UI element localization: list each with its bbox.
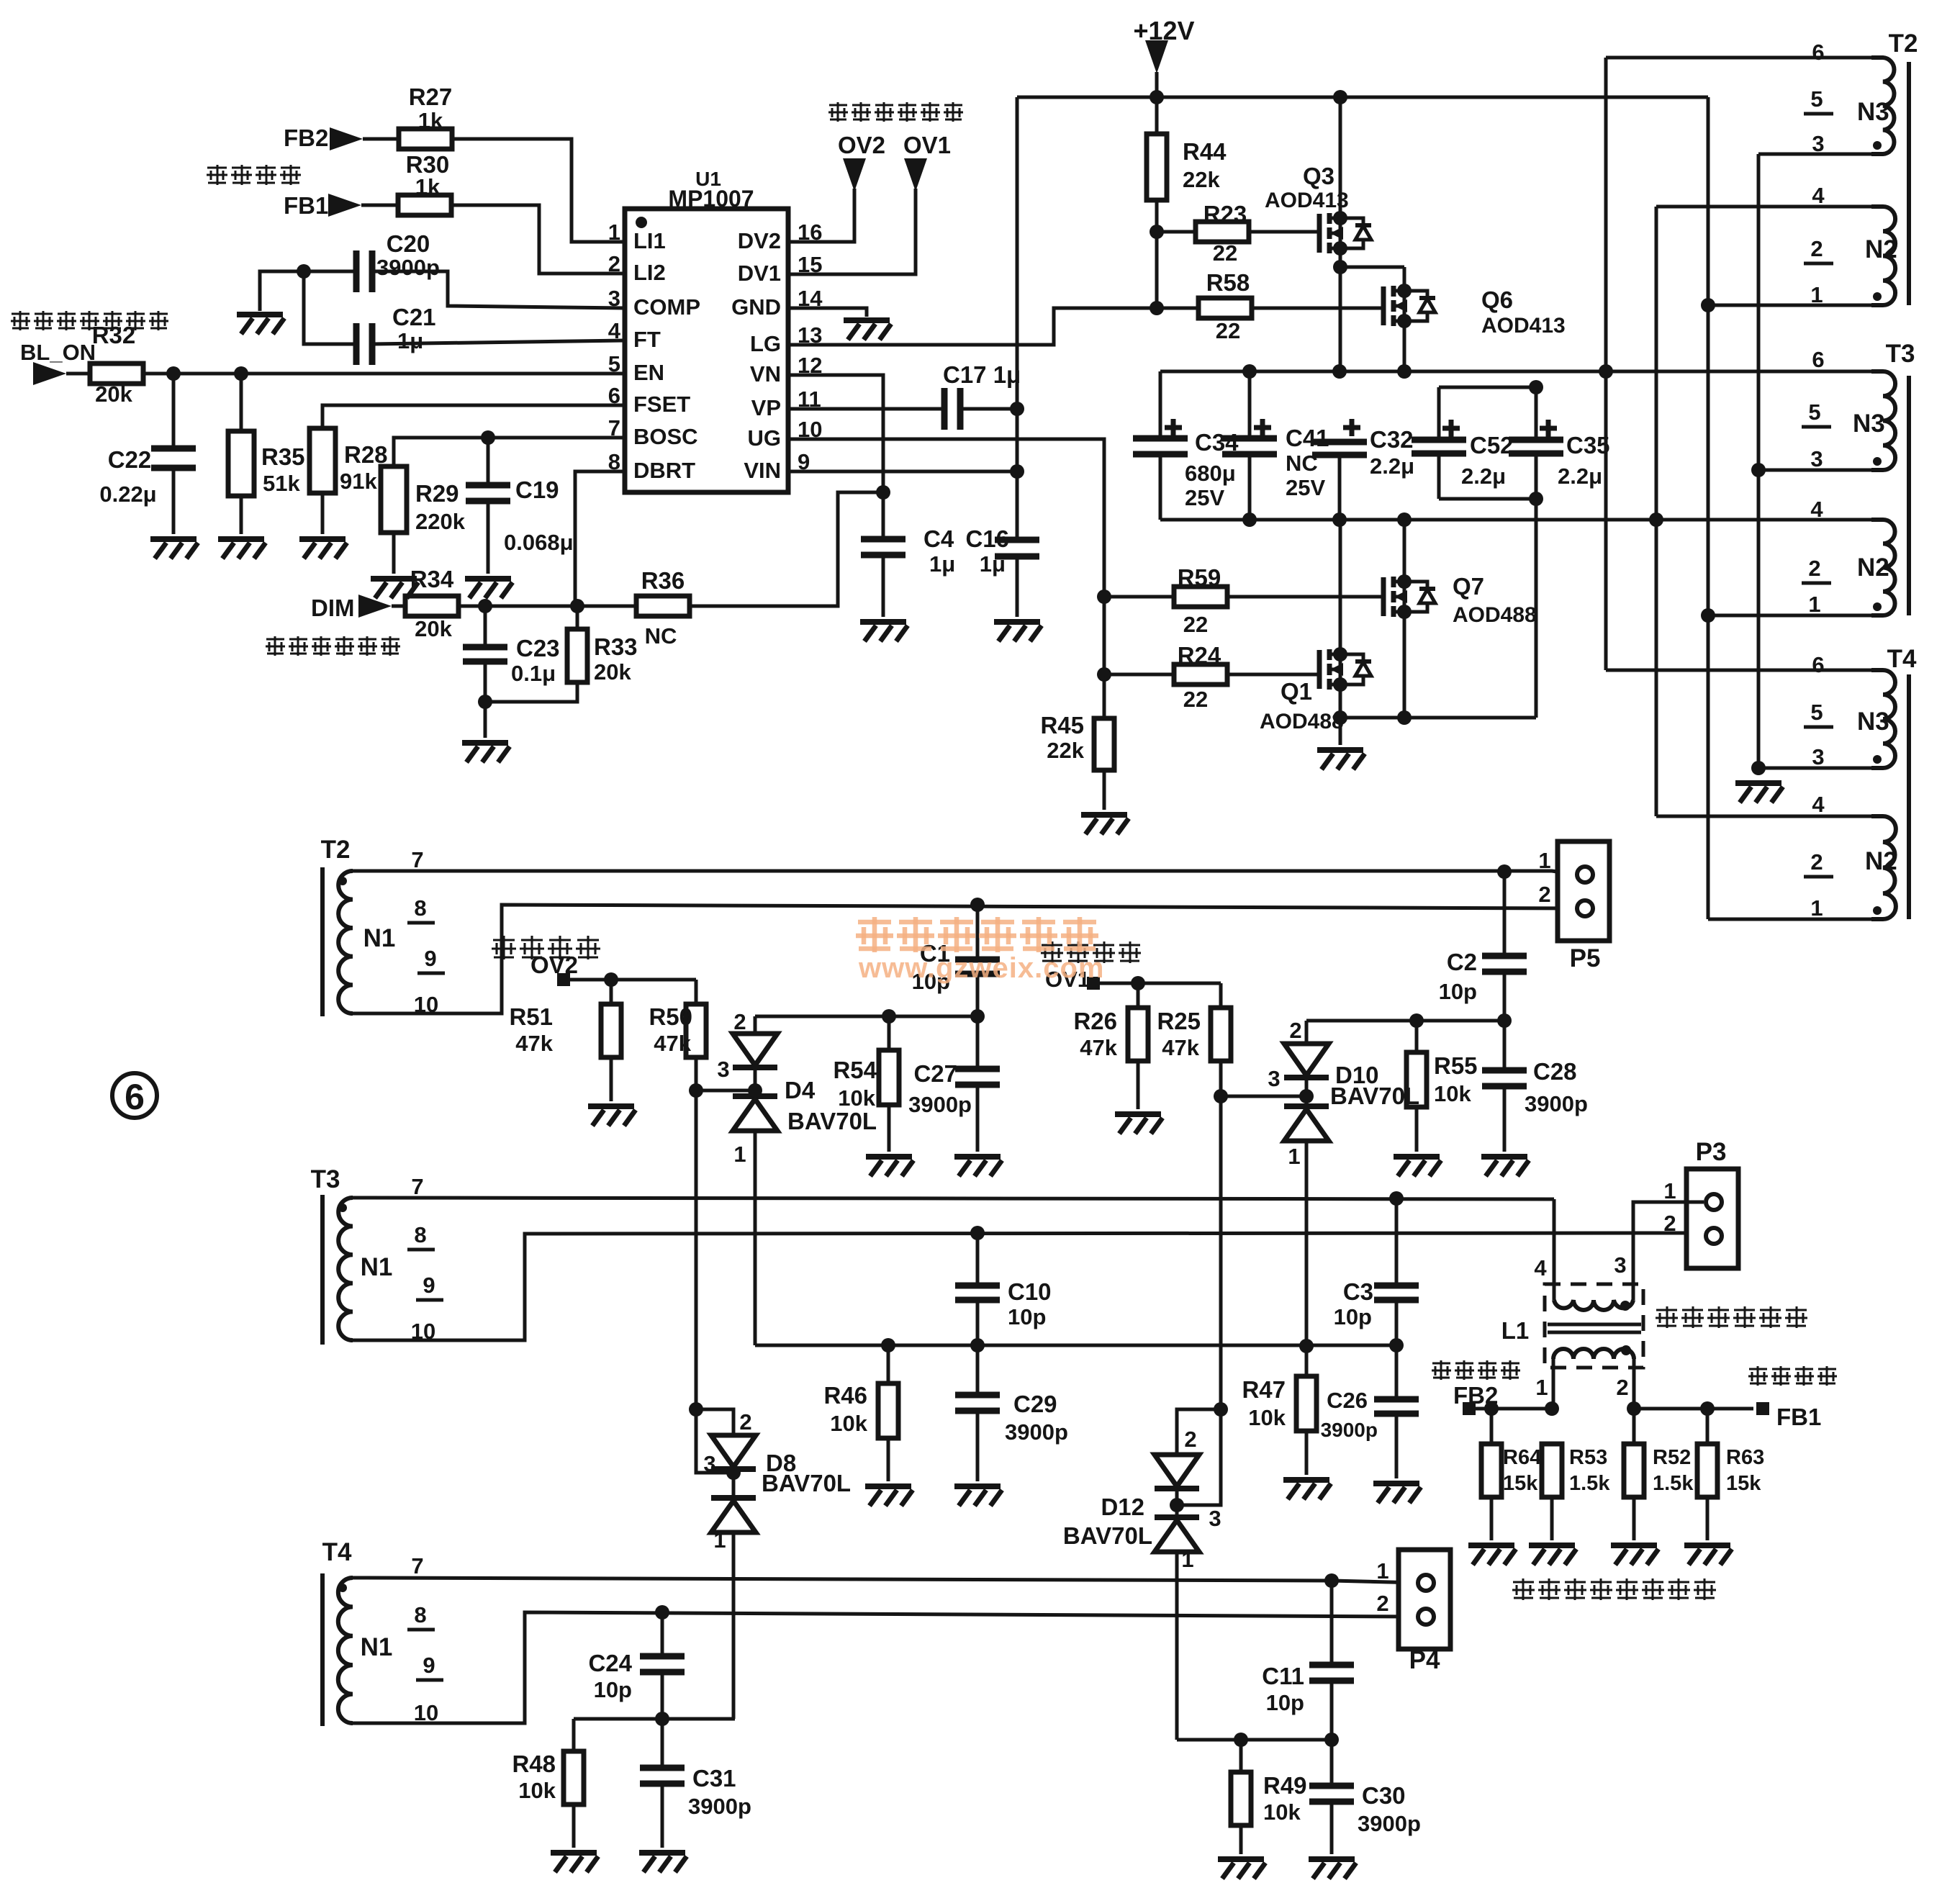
label U1 pin 5 number [608, 351, 620, 376]
ground at R55 [1394, 1157, 1441, 1176]
wire Q3 drain-source line [1339, 97, 1342, 371]
wire to R54 [888, 1016, 891, 1050]
svg-text:MP1007: MP1007 [668, 186, 754, 212]
label C32 designator [1370, 426, 1414, 453]
label C31 value [688, 1794, 751, 1819]
diode D8 upper [711, 1435, 756, 1469]
wire to R47 [1305, 1346, 1309, 1376]
label U1 pin 2 name LI2 [633, 260, 666, 285]
wire T2 pin1 rail [1708, 304, 1871, 307]
label T3 pin4 [1810, 497, 1823, 522]
label R48 value [518, 1778, 556, 1803]
transformer T2 core [1907, 62, 1911, 305]
wire R47 to ground [1305, 1431, 1309, 1475]
label C11 value [1266, 1690, 1304, 1715]
svg-text:R49: R49 [1263, 1772, 1307, 1799]
label C1 value [912, 969, 950, 994]
transistor Q7 [1383, 574, 1435, 619]
label R52 designator [1653, 1446, 1691, 1469]
svg-text:91k: 91k [340, 469, 377, 494]
label P4 pin2 [1376, 1591, 1388, 1616]
wire to R45 [1103, 674, 1106, 718]
junction Q1/Q7 source node [1333, 710, 1347, 725]
wire L1 pin2 lead [1632, 1359, 1636, 1409]
wire R25 down to D12 [1177, 1061, 1221, 1505]
svg-text:N3: N3 [1853, 410, 1885, 438]
ground at R64 [1468, 1545, 1516, 1565]
node FB2 label [284, 125, 328, 151]
svg-text:Q1: Q1 [1281, 678, 1312, 705]
connector P5 body [1558, 841, 1609, 941]
capacitor C11 [1309, 1665, 1354, 1681]
wire to R23 [1157, 230, 1195, 234]
wire to C22 [172, 374, 176, 447]
wire D12 bottom rail [1177, 1738, 1332, 1742]
svg-text:C10: C10 [1008, 1278, 1052, 1305]
resistor R50 [686, 1004, 706, 1057]
wire C3 top lead [1395, 1198, 1399, 1284]
junction P4 rail/C11 [1324, 1573, 1339, 1588]
connector P5 label [1570, 944, 1601, 972]
label U1 pin 16 name DV2 [738, 228, 781, 253]
svg-text:R26: R26 [1073, 1008, 1117, 1034]
label U1 pin 6 number [608, 383, 620, 408]
label C31 designator [692, 1765, 736, 1792]
wire R45 to ground [1103, 770, 1106, 810]
capacitor C32 [1312, 442, 1367, 455]
label R26 value [1080, 1035, 1117, 1060]
capacitor C16 [995, 540, 1039, 556]
transformer T3 winding N2 [1871, 520, 1895, 615]
label L1 pin4 [1534, 1255, 1547, 1281]
label C28 designator [1533, 1058, 1577, 1085]
label U1 pin 10 number [798, 417, 822, 442]
svg-text:R27: R27 [409, 83, 453, 110]
label C41 value NC [1286, 451, 1318, 476]
label Q7 part number [1453, 603, 1537, 627]
capacitor C1 [955, 959, 1000, 974]
wire C24 bottom rail [574, 1717, 735, 1721]
label R47 designator [1242, 1376, 1286, 1403]
svg-text:AOD413: AOD413 [1481, 314, 1566, 338]
label T3 pin10 [411, 1319, 435, 1344]
wire L1 pin3 lead [1632, 1284, 1635, 1300]
wire R46 to ground [887, 1438, 890, 1481]
label U1 pin 12 number [798, 353, 822, 378]
label C32 plus [1343, 419, 1360, 436]
svg-text:51k: 51k [263, 471, 300, 496]
ground at R63 [1684, 1545, 1732, 1565]
diode D12 lower [1155, 1517, 1199, 1552]
svg-text:COMP: COMP [633, 294, 700, 320]
svg-text:0.068μ: 0.068μ [504, 530, 574, 555]
label T2 pin9 underline [417, 972, 445, 975]
svg-text:10k: 10k [830, 1411, 867, 1436]
svg-text:5: 5 [1808, 399, 1820, 425]
wire U1 pin8 DBRT down [575, 471, 625, 606]
svg-text:R28: R28 [344, 441, 388, 468]
wire to R46 [887, 1345, 890, 1383]
transformer T4 winding N3 phase dot [1873, 755, 1882, 764]
label D12 pin2 [1184, 1427, 1196, 1452]
junction R25 line/D12 pin2 [1214, 1402, 1228, 1417]
diode D4 link [754, 1067, 757, 1096]
label R35 value [263, 471, 300, 496]
wire C27 to ground [976, 1085, 980, 1152]
wire C30 to ground [1330, 1802, 1334, 1854]
label U1 designator [695, 168, 721, 190]
wire C20 left [304, 270, 354, 274]
wire R54 to ground [888, 1105, 891, 1152]
resistor R34 [405, 596, 459, 616]
resistor R51 [601, 1004, 621, 1057]
svg-text:1: 1 [1663, 1178, 1676, 1203]
svg-text:T3: T3 [1886, 340, 1915, 368]
svg-text:P5: P5 [1570, 944, 1601, 972]
svg-text:4: 4 [608, 318, 621, 343]
wire U1 pin13 LG to gate node [789, 308, 1155, 345]
transformer T2 primary N1 coil [338, 871, 353, 1013]
ground at C28 [1481, 1157, 1529, 1176]
label D10 pin3 [1268, 1066, 1280, 1091]
wire to R55 [1415, 1021, 1419, 1052]
label R54 designator [833, 1057, 877, 1083]
svg-text:R50: R50 [649, 1003, 692, 1030]
wire to R35 [240, 374, 243, 431]
junction C10/C29 [970, 1338, 985, 1352]
capacitor C4 [861, 539, 906, 555]
label U1 pin 8 name DBRT [633, 458, 695, 483]
inductor L1 top phase dot [1620, 1301, 1630, 1311]
wire to R52 [1632, 1409, 1636, 1444]
junction VN/R36 [876, 485, 890, 500]
resistor R30 [398, 195, 451, 215]
junction DIM/R33/DBRT [570, 599, 584, 613]
diode D12 link [1175, 1489, 1179, 1517]
label U1 pin 4 name FT [633, 327, 661, 352]
svg-text:1μ: 1μ [929, 551, 955, 577]
resistor R46 [878, 1383, 898, 1438]
transformer T2 right label [1889, 30, 1918, 58]
label T4 N1 [361, 1633, 393, 1661]
label C28 value [1525, 1091, 1588, 1116]
node FB1 input arrow [328, 194, 361, 217]
label R49 designator [1263, 1772, 1307, 1799]
wire D4 pin2 lead [754, 1016, 757, 1034]
svg-text:0.1μ: 0.1μ [511, 661, 556, 686]
ground at R51 [588, 1106, 636, 1126]
transformer T2 winding N2 phase dot [1873, 292, 1882, 301]
net FB2 tap label [1453, 1382, 1498, 1409]
resistor R49 [1231, 1772, 1251, 1825]
label P5 pin2 [1538, 882, 1550, 907]
transformer T3 right label [1886, 340, 1915, 368]
junction Q7 drain rail [1397, 512, 1412, 527]
transistor Q6 [1383, 284, 1435, 328]
junction R50 line/D8 pin2 [689, 1402, 703, 1417]
transformer T4 core [1907, 674, 1911, 919]
wire T4 pin7 rail to P4 pin1 [353, 1578, 1417, 1583]
junction EN/C22 [166, 366, 181, 381]
label L1 pin2 [1616, 1375, 1628, 1400]
svg-text:Q3: Q3 [1303, 163, 1334, 189]
wire FB1 to R30 [361, 204, 400, 207]
wire BL_ON to R32 [66, 372, 90, 376]
resistor R36 [636, 596, 690, 616]
wire Q1 drain-source line [1339, 520, 1342, 745]
svg-text:1: 1 [1288, 1144, 1300, 1169]
label C3 value [1334, 1304, 1372, 1329]
junction +12V/Q3 [1333, 90, 1347, 104]
wire to D4 pin3 [696, 1089, 755, 1093]
label R34 value [415, 616, 452, 641]
label R64 value [1503, 1472, 1538, 1495]
label R28 value [340, 469, 377, 494]
capacitor C41 [1222, 438, 1277, 454]
label R32 value [95, 381, 132, 407]
label T2 pin2 underline [1804, 262, 1833, 266]
wire C52-C35 top link [1439, 386, 1536, 389]
transformer T4 winding N2 [1871, 816, 1896, 919]
capacitor C24 [640, 1656, 685, 1672]
wire to R64 [1490, 1409, 1494, 1444]
svg-text:7: 7 [411, 1174, 423, 1199]
svg-text:N1: N1 [361, 1253, 393, 1281]
label R54 value [838, 1085, 875, 1111]
wire R26 to ground [1137, 1061, 1140, 1109]
svg-text:1: 1 [1376, 1558, 1388, 1584]
junction UG/R24/R45 [1097, 667, 1111, 682]
svg-text:C41: C41 [1286, 425, 1329, 451]
svg-text:4: 4 [1534, 1255, 1547, 1281]
svg-text:C29: C29 [1013, 1391, 1057, 1417]
wire C19 to ground [487, 501, 490, 574]
wire R27 to U1 pin1 [452, 139, 625, 242]
resistor R53 [1542, 1444, 1562, 1497]
svg-text:OV2: OV2 [838, 132, 885, 158]
svg-text:N2: N2 [1857, 554, 1889, 582]
ground at C31 [639, 1853, 687, 1872]
junction C24 top [655, 1605, 669, 1620]
svg-text:N2: N2 [1865, 847, 1897, 875]
label T3 pin1 [1808, 592, 1820, 617]
wire D8 pin1 down [732, 1532, 736, 1719]
label C20 designator [387, 230, 430, 257]
label U1 pin 4 number [608, 318, 621, 343]
label C32 value [1370, 453, 1414, 479]
svg-text:2.2μ: 2.2μ [1558, 464, 1602, 489]
label T4 N3 [1857, 708, 1889, 736]
wire T4 pin10 to P4 pin2 rail [353, 1612, 1417, 1723]
label T3 N3 [1853, 410, 1885, 438]
svg-text:2: 2 [1810, 236, 1823, 261]
svg-text:47k: 47k [654, 1031, 691, 1056]
svg-text:3900p: 3900p [688, 1794, 751, 1819]
ground at C16 [994, 622, 1042, 641]
label C4 designator [923, 525, 954, 552]
label Q6 part number [1481, 314, 1566, 338]
label U1 pin 2 number [608, 251, 620, 276]
svg-text:3900p: 3900p [376, 255, 440, 280]
label D12 designator [1101, 1494, 1144, 1520]
label R46 designator [823, 1382, 867, 1409]
wire T4 pin3 rail [1758, 767, 1871, 770]
svg-text:10p: 10p [1439, 979, 1477, 1004]
label L1 pin1 [1535, 1375, 1548, 1400]
svg-text:4: 4 [1810, 497, 1823, 522]
svg-text:1.5k: 1.5k [1569, 1472, 1610, 1495]
label U1 pin 1 name LI1 [633, 228, 666, 253]
wire R53 to ground [1550, 1497, 1554, 1540]
label T4 pin6 [1812, 652, 1824, 677]
label U1 pin 12 name VN [750, 361, 781, 387]
wire T3 pin7 rail [353, 1198, 1554, 1199]
svg-text:D12: D12 [1101, 1494, 1144, 1520]
svg-text:AOD488: AOD488 [1260, 710, 1344, 733]
svg-text:10k: 10k [1434, 1081, 1471, 1106]
label U1 part number [668, 186, 754, 212]
node FB1 label [284, 192, 328, 219]
wire T2 pin3 rail [1758, 153, 1871, 156]
wire FB1 node [1634, 1407, 1753, 1411]
svg-text:C20: C20 [387, 230, 430, 257]
transformer T4 winding N3 [1871, 670, 1895, 768]
junction FB2/R53/L1 pin1 [1545, 1401, 1559, 1416]
svg-text:FSET: FSET [633, 392, 690, 417]
label T4 pin9 [423, 1653, 435, 1678]
svg-text:N3: N3 [1857, 98, 1889, 126]
svg-text:FT: FT [633, 327, 661, 352]
svg-text:3: 3 [608, 286, 620, 311]
wire C11 top lead [1330, 1581, 1334, 1663]
capacitor C35 [1509, 440, 1563, 453]
wire C17 to VIN column [960, 407, 1017, 411]
wire to R48 [572, 1719, 576, 1751]
svg-text:T2: T2 [321, 836, 351, 864]
svg-text:FB2: FB2 [284, 125, 328, 151]
svg-text:C31: C31 [692, 1765, 736, 1792]
transformer T3 winding N2 phase dot [1873, 602, 1882, 611]
svg-text:VN: VN [750, 361, 781, 387]
wire Q6 drain-source line [1403, 267, 1406, 371]
ground at C23 [462, 743, 510, 762]
transformer T4 winding N2 phase dot [1873, 906, 1882, 915]
svg-text:25V: 25V [1185, 485, 1224, 510]
ground at C20 [237, 315, 284, 334]
resistor R44 [1147, 134, 1167, 200]
label C29 value [1005, 1419, 1068, 1445]
label L1 pin3 [1614, 1252, 1626, 1278]
resistor R54 [879, 1050, 899, 1105]
wire T2 pin4 rail [1656, 205, 1871, 209]
label T3 pin5 underline [1802, 425, 1831, 429]
transistor Q3 [1319, 211, 1371, 256]
wire R33 to C23 ground node [485, 682, 577, 702]
svg-text:15k: 15k [1503, 1472, 1538, 1495]
svg-text:3900p: 3900p [908, 1092, 972, 1117]
wire C22 to ground [172, 468, 176, 534]
label CJK current-sampling FB1 电流取样 [1748, 1366, 1837, 1386]
transformer T3 core [1907, 376, 1911, 615]
label D8 pin1 [713, 1527, 726, 1553]
wire C21 to U1 pin4 [372, 340, 625, 344]
svg-text:220k: 220k [415, 509, 466, 534]
wire T2 pin6 rail [1606, 56, 1871, 60]
label R59 designator [1178, 564, 1221, 591]
junction C17/+12V column [1010, 402, 1024, 416]
svg-text:8: 8 [414, 1602, 426, 1627]
label D10 pin1 [1288, 1144, 1300, 1169]
svg-text:2: 2 [1616, 1375, 1628, 1400]
wire R23 to Q3 gate [1250, 230, 1319, 234]
label T4 pin8 [414, 1602, 426, 1627]
wire to C23 [484, 606, 487, 646]
svg-text:20k: 20k [415, 616, 452, 641]
ground at C27 [954, 1157, 1002, 1176]
capacitor C21 [356, 323, 372, 365]
capacitor C52 [1412, 440, 1466, 453]
wire C24 down [661, 1672, 664, 1717]
label D10 pin2 [1289, 1018, 1301, 1043]
connector P3 pin1 circle [1706, 1194, 1722, 1210]
connector P5 pin1 circle [1577, 867, 1593, 882]
label C41 plus [1254, 419, 1271, 436]
label R28 designator [344, 441, 388, 468]
label T4 pin2 underline [1804, 875, 1833, 879]
IC U1 pin1 mark [636, 217, 647, 228]
resistor R27 [399, 129, 452, 149]
svg-text:R63: R63 [1726, 1446, 1764, 1469]
wire C20 to U1 pin3 [372, 271, 625, 308]
svg-text:1: 1 [1810, 282, 1823, 307]
svg-text:C26: C26 [1327, 1388, 1368, 1413]
label C35 value [1558, 464, 1602, 489]
svg-text:6: 6 [1812, 347, 1824, 372]
svg-text:P3: P3 [1696, 1138, 1727, 1166]
ground at R29 [371, 579, 418, 598]
wire bridge top rail / T pin6 net [1160, 370, 1871, 374]
ground at R28 [299, 539, 347, 559]
svg-text:C11: C11 [1262, 1663, 1304, 1689]
resistor R64 [1481, 1444, 1501, 1497]
svg-text:R58: R58 [1206, 269, 1250, 296]
capacitor C22 [151, 448, 196, 468]
ground at R35 [218, 539, 266, 559]
label CJK voltage-sampling OV1 电压取样 [1041, 941, 1141, 963]
wire to R58 [1157, 307, 1198, 310]
junction D8 pin3 [726, 1465, 741, 1480]
label Q1 designator [1281, 678, 1312, 705]
label T4 pin1 [1810, 895, 1823, 921]
label R53 designator [1569, 1446, 1607, 1469]
wire R30 to U1 pin2 [451, 205, 625, 274]
svg-text:1: 1 [1808, 592, 1820, 617]
resistor R59 [1174, 587, 1227, 607]
junction Q6 source rail [1397, 364, 1412, 379]
wire DIM node [460, 605, 636, 608]
ground at C26 [1373, 1483, 1421, 1503]
label C2 value [1439, 979, 1477, 1004]
wire to R26 [1137, 983, 1140, 1008]
label R30 designator [406, 151, 450, 178]
svg-text:1: 1 [713, 1527, 726, 1553]
ground at R45 [1081, 815, 1129, 834]
junction C32 bottom [1332, 512, 1347, 527]
label R25 value [1162, 1035, 1199, 1060]
wire FB2 to R27 [363, 137, 399, 141]
svg-text:R33: R33 [594, 633, 638, 660]
transformer T3 left label [311, 1165, 340, 1193]
